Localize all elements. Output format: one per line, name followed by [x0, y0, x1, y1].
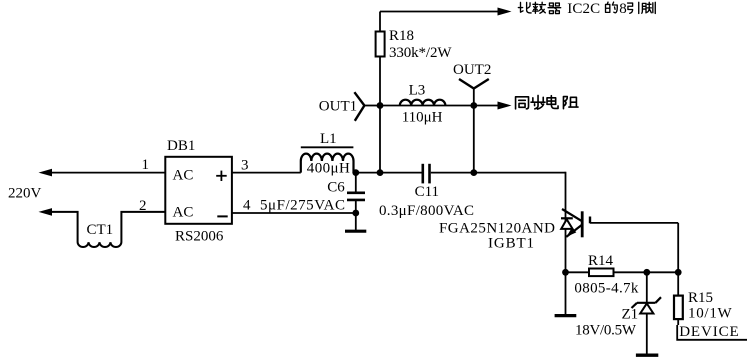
label 10/1W: [688, 305, 733, 321]
label CT1: [87, 222, 114, 238]
label 同步电阻: [516, 95, 578, 109]
label DB1: [167, 138, 195, 154]
plus sign: [216, 171, 227, 181]
svg-text:R15: R15: [688, 290, 713, 306]
node OUT2: [459, 79, 489, 173]
label FGA25N120AND: [439, 221, 555, 237]
label AC bottom: [173, 204, 194, 220]
svg-text:FGA25N120AND: FGA25N120AND: [439, 221, 555, 237]
svg-text:R18: R18: [389, 28, 414, 44]
svg-text:0805-4.7k: 0805-4.7k: [574, 280, 639, 296]
junction dot R14 left: [562, 269, 569, 276]
svg-text:OUT1: OUT1: [319, 98, 357, 114]
svg-text:1: 1: [142, 157, 150, 173]
svg-text:220V: 220V: [8, 185, 42, 201]
svg-text:OUT2: OUT2: [453, 62, 491, 78]
wire pin3 to L1: [232, 172, 301, 174]
svg-text:DEVICE: DEVICE: [679, 324, 739, 340]
arrow to comparator text: [498, 8, 512, 16]
label R18: [389, 28, 414, 44]
pin label 2: [139, 198, 147, 214]
label 220V: [8, 185, 42, 201]
svg-text:0.3μF/800VAC: 0.3μF/800VAC: [379, 203, 474, 219]
svg-text:18V/0.5W: 18V/0.5W: [575, 323, 637, 339]
pin label 1: [142, 157, 150, 173]
DEVICE box: [677, 325, 747, 340]
arrow to sync resistor: [498, 102, 512, 110]
transformer CT1: [51, 212, 165, 247]
wire C6 to ground: [355, 213, 357, 230]
junction dot R14 right: [675, 269, 682, 276]
label IGBT1: [488, 236, 534, 252]
wire C11 to IGBT corner: [431, 172, 566, 174]
label R15: [688, 290, 713, 306]
arrow 220V line 2: [39, 208, 53, 216]
svg-text:3: 3: [241, 158, 249, 174]
label C6: [327, 180, 345, 196]
label Z1: [622, 307, 639, 323]
resistor R14: [566, 269, 679, 277]
label C11: [415, 184, 439, 200]
wire L1 to C11: [353, 172, 421, 174]
junction dot C6 top: [352, 169, 359, 176]
arrow 220V line 1: [39, 169, 166, 177]
svg-text:C11: C11: [415, 184, 439, 200]
label 400uH: [307, 160, 350, 176]
label 18V/0.5W: [575, 323, 637, 339]
wire R18 vertical lower: [379, 106, 381, 173]
pin label 3: [241, 158, 249, 174]
svg-text:RS2006: RS2006: [175, 229, 224, 245]
transistor IGBT1 with diode: [561, 209, 590, 237]
svg-text:IC2C: IC2C: [567, 1, 600, 17]
svg-text:IGBT1: IGBT1: [488, 236, 534, 252]
svg-text:110μH: 110μH: [402, 109, 443, 125]
pin label 4: [243, 198, 251, 214]
svg-text:AC: AC: [173, 204, 194, 220]
svg-text:400μH: 400μH: [307, 160, 350, 176]
svg-text:8: 8: [619, 1, 627, 17]
label 0805-4.7k: [574, 280, 639, 296]
junction dot Z1 top: [643, 269, 650, 276]
wire pin4 row: [232, 212, 356, 214]
inductor L3: [400, 100, 446, 106]
label RS2006: [175, 229, 224, 245]
label OUT1: [319, 98, 357, 114]
label 5uF/275VAC: [260, 198, 345, 214]
wire OUT1 row: [380, 105, 500, 107]
svg-text:CT1: CT1: [87, 222, 114, 238]
label 110uH: [402, 109, 443, 125]
svg-text:AC: AC: [173, 168, 194, 184]
label 0.3uF/800VAC: [379, 203, 474, 219]
svg-text:Z1: Z1: [622, 307, 639, 323]
wire IGBT collector drop: [565, 172, 567, 315]
svg-text:2: 2: [139, 198, 147, 214]
ground under C6: [345, 230, 366, 233]
minus sign: [217, 215, 227, 217]
junction dot OUT2 bottom: [470, 169, 477, 176]
label 比较器 IC2C 的8引脚: [518, 1, 655, 17]
svg-text:C6: C6: [327, 180, 345, 196]
svg-text:4: 4: [243, 198, 251, 214]
label 330k*/2W: [389, 45, 452, 61]
svg-text:330k*/2W: 330k*/2W: [389, 45, 452, 61]
label DEVICE: [679, 324, 739, 340]
label R14: [588, 253, 614, 269]
junction dot R18/OUT1: [377, 102, 384, 109]
svg-text:R14: R14: [588, 253, 614, 269]
junction dot R18 bottom: [377, 169, 384, 176]
resistor R15: [674, 272, 683, 325]
resistor R18: [376, 12, 385, 106]
junction dot OUT2/L3 row: [470, 102, 477, 109]
wire IGBT gate: [590, 223, 678, 272]
ground under IGBT emitter: [555, 314, 577, 317]
svg-text:10/1W: 10/1W: [688, 305, 733, 321]
node OUT1: [354, 92, 380, 121]
label OUT2: [453, 62, 491, 78]
svg-text:L3: L3: [409, 82, 426, 98]
inductor L1: [301, 147, 354, 172]
junction dot C6 bottom: [352, 210, 359, 217]
wire top rail to comparator: [380, 11, 500, 13]
zener diode Z1: [632, 272, 662, 353]
svg-text:5μF/275VAC: 5μF/275VAC: [260, 198, 345, 214]
label AC top: [173, 168, 194, 184]
svg-text:DB1: DB1: [167, 138, 195, 154]
capacitor C6: [347, 173, 365, 213]
svg-text:L1: L1: [320, 131, 337, 147]
rectifier DB1 box: [165, 157, 232, 224]
label L3: [409, 82, 426, 98]
ground under Z1: [636, 354, 658, 357]
label L1: [320, 131, 337, 147]
capacitor C11: [423, 164, 430, 184]
